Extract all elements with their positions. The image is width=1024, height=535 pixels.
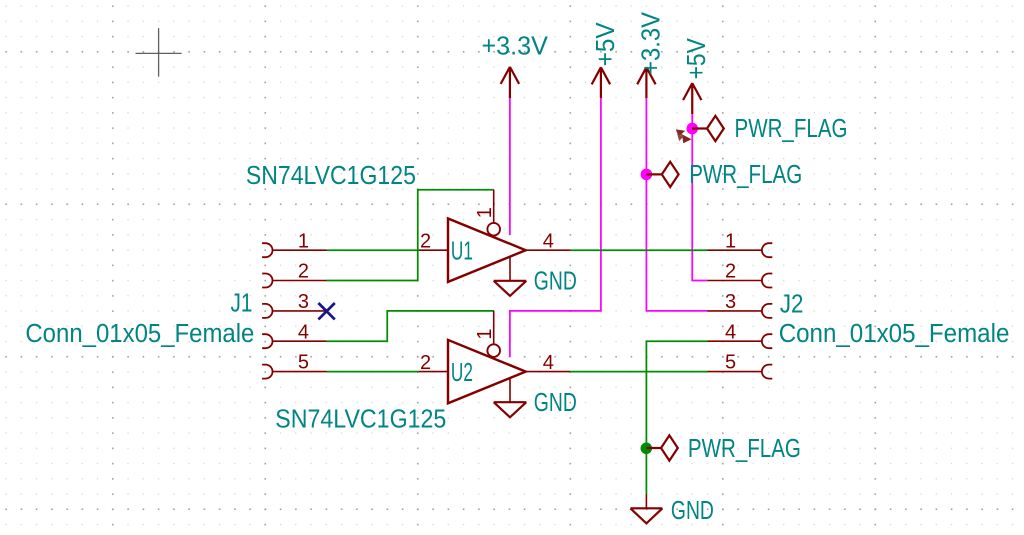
svg-text:4: 4 [543, 231, 554, 253]
svg-text:GND: GND [534, 389, 577, 417]
svg-text:4: 4 [298, 321, 309, 343]
svg-text:J1: J1 [231, 290, 253, 318]
svg-text:+5V: +5V [592, 22, 620, 66]
svg-text:+5V: +5V [683, 38, 711, 79]
svg-text:U1: U1 [451, 237, 473, 265]
svg-text:SN74LVC1G125: SN74LVC1G125 [246, 162, 416, 190]
svg-text:1: 1 [474, 328, 496, 339]
svg-text:1: 1 [474, 207, 496, 218]
svg-text:5: 5 [298, 352, 309, 374]
svg-text:GND: GND [534, 268, 577, 296]
svg-text:PWR_FLAG: PWR_FLAG [735, 115, 848, 143]
svg-text:GND: GND [671, 497, 714, 525]
svg-text:4: 4 [543, 352, 554, 374]
svg-text:1: 1 [298, 230, 309, 252]
svg-text:2: 2 [298, 261, 309, 283]
svg-text:2: 2 [725, 261, 736, 283]
svg-text:+3.3V: +3.3V [482, 33, 548, 61]
svg-text:U2: U2 [451, 359, 473, 387]
svg-text:+3.3V: +3.3V [637, 12, 665, 75]
svg-text:2: 2 [420, 352, 431, 374]
svg-text:5: 5 [725, 352, 736, 374]
svg-text:3: 3 [725, 291, 736, 313]
svg-text:SN74LVC1G125: SN74LVC1G125 [275, 406, 446, 434]
svg-text:PWR_FLAG: PWR_FLAG [688, 435, 801, 463]
svg-text:2: 2 [420, 231, 431, 253]
svg-text:3: 3 [298, 291, 309, 313]
svg-text:Conn_01x05_Female: Conn_01x05_Female [779, 320, 1010, 348]
svg-text:4: 4 [725, 321, 736, 343]
svg-text:J2: J2 [780, 291, 804, 319]
svg-text:Conn_01x05_Female: Conn_01x05_Female [25, 320, 254, 348]
svg-text:1: 1 [725, 230, 736, 252]
svg-text:PWR_FLAG: PWR_FLAG [689, 161, 802, 189]
